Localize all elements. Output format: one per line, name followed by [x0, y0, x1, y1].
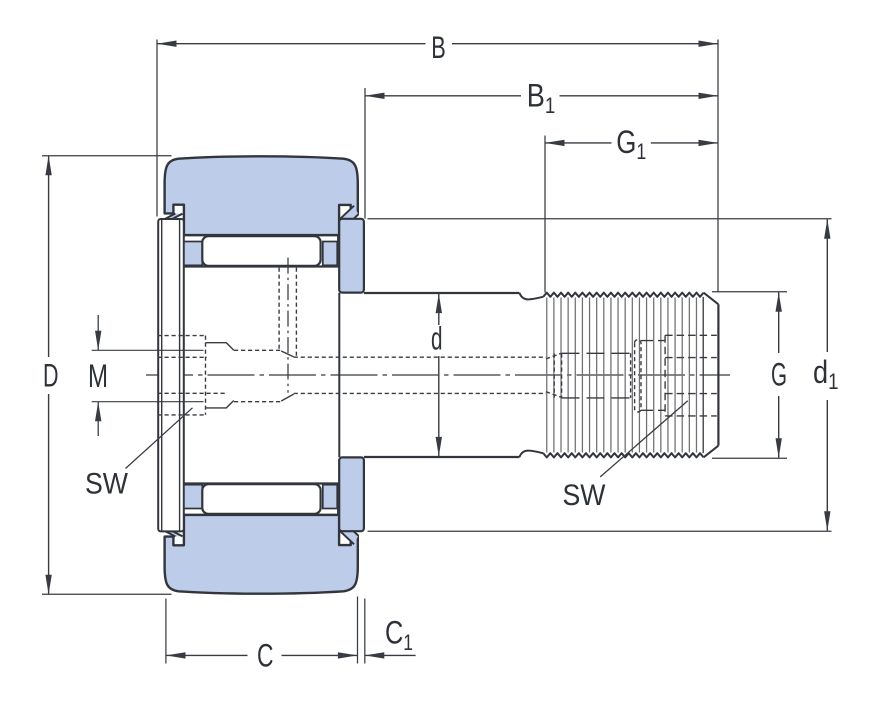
- hex socket SW (left, hidden): [158, 336, 227, 415]
- svg-text:SW: SW: [85, 468, 129, 501]
- stud shaft OD bottom: [364, 456, 520, 458]
- outer ring (top section): [165, 156, 358, 235]
- grease thread hole M (left, hidden): [234, 350, 281, 401]
- thrust washer (side plate): [158, 219, 184, 531]
- stud raceway surface (bottom): [184, 482, 339, 484]
- svg-text:SW: SW: [563, 479, 607, 512]
- dimension B: [157, 40, 718, 293]
- svg-text:G: G: [771, 356, 787, 392]
- seal (bottom right): [340, 531, 359, 545]
- dimension d: [438, 294, 440, 457]
- dimension D: [42, 156, 172, 594]
- needle roller (top): [202, 236, 320, 266]
- seal (bottom left): [165, 531, 182, 537]
- centerline (stud axis): [146, 374, 730, 376]
- relief groove bottom: [520, 451, 544, 457]
- svg-text:C: C: [257, 638, 274, 674]
- svg-text:M: M: [88, 358, 108, 394]
- svg-text:B: B: [431, 29, 446, 65]
- needle roller (bottom): [202, 484, 320, 514]
- dimension B1: [365, 88, 718, 219]
- dimension G1: [545, 136, 718, 293]
- central lubrication duct (hidden): [294, 353, 561, 397]
- flange ring (top section): [339, 219, 364, 293]
- cage right closure line (bottom): [337, 484, 339, 515]
- cage (bottom left section): [184, 485, 202, 509]
- dimension d1: [368, 219, 832, 531]
- thread runout line: [702, 297, 704, 453]
- cage (bottom right section): [323, 485, 337, 509]
- seal (top left): [165, 214, 182, 220]
- thread crest zigzag (top): [543, 293, 703, 297]
- radial lubrication hole (hidden): [278, 268, 280, 349]
- cage right closure line (top): [337, 235, 339, 266]
- dimension M: [92, 315, 204, 436]
- outer ring (bottom section): [165, 515, 358, 594]
- relief groove top: [520, 293, 544, 299]
- thread flank lines: [547, 298, 697, 453]
- end chamfer bottom: [704, 446, 719, 458]
- hex socket SW (right, hidden): [665, 335, 717, 416]
- svg-text:d: d: [431, 321, 443, 357]
- cage (top right section): [323, 242, 337, 266]
- dimension G: [712, 292, 787, 459]
- duct counterbore (right, hidden): [554, 353, 630, 398]
- cross hole (right, hidden): [635, 340, 641, 412]
- socket counterbore step (left, hidden): [206, 343, 234, 408]
- label SW (right) with leader: [600, 401, 688, 477]
- outer ring raceway line (bottom): [184, 514, 339, 516]
- stud shaft OD top: [364, 292, 520, 294]
- flange ring (bottom section): [339, 457, 364, 531]
- stud shoulder face: [338, 293, 340, 458]
- stud raceway surface (top): [184, 265, 339, 267]
- thread crest zigzag (bottom): [543, 453, 703, 457]
- cage (top left section): [184, 242, 202, 266]
- dimension C1: [365, 599, 416, 664]
- end chamfer top: [704, 293, 719, 305]
- radial hole axis: [287, 258, 289, 393]
- stud end face: [717, 304, 719, 445]
- dimension C: [166, 597, 358, 664]
- seal (top right): [340, 206, 359, 220]
- label SW (left) with leader: [126, 408, 193, 469]
- svg-text:D: D: [43, 358, 59, 394]
- outer ring raceway line (top): [184, 234, 339, 236]
